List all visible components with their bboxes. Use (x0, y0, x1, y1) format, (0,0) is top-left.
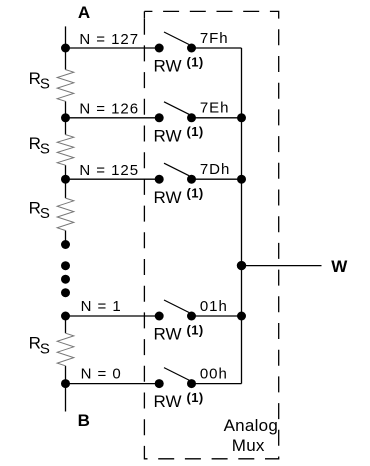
svg-text:RW: RW (154, 325, 182, 344)
analog mux boundary (dashed box) (144, 11, 278, 458)
svg-text:Mux: Mux (232, 436, 265, 455)
svg-text:Analog: Analog (224, 416, 278, 435)
wire: switch 7Eh to bus (192, 117, 242, 119)
node: tap N=0 junction (61, 379, 70, 388)
svg-text:RW: RW (154, 188, 182, 207)
wire: tap N=0 (66, 383, 160, 385)
resistor RS2 (57, 135, 74, 166)
svg-text:B: B (78, 411, 90, 430)
svg-text:7Fh: 7Fh (200, 30, 229, 47)
svg-text:N = 1: N = 1 (81, 298, 122, 315)
node: tap N=125 junction (61, 175, 70, 184)
svg-text:7Dh: 7Dh (200, 161, 230, 178)
svg-text:01h: 01h (200, 298, 228, 315)
svg-text:A: A (78, 3, 90, 22)
wire: terminal B stub (65, 384, 67, 412)
wire: ladder segment R1-R2 (65, 101, 67, 134)
svg-text:W: W (331, 257, 348, 276)
ellipsis dot 3 (61, 288, 70, 297)
wire: switch 00h to bus (192, 383, 242, 385)
ellipsis dot 2 (61, 275, 70, 284)
svg-text:RW: RW (154, 126, 182, 145)
svg-text:7Eh: 7Eh (200, 100, 230, 117)
svg-text:(1): (1) (187, 390, 204, 405)
wire: switch 7Dh to bus (192, 178, 242, 180)
wire: tap N=126 (66, 117, 160, 119)
wire: ladder segment R2-R3 (65, 165, 67, 198)
switch SW 00h (155, 368, 196, 389)
wire: switch 01h to bus (192, 315, 242, 317)
node: tap N=126 junction (61, 113, 70, 122)
node: bus junction 01h (237, 312, 246, 321)
wire: W output (242, 265, 322, 267)
svg-text:(1): (1) (187, 124, 204, 139)
wire: ladder segment below R4 (65, 366, 67, 384)
switch SW 01h (155, 300, 196, 321)
node: bus junction 7Dh (237, 175, 246, 184)
switch SW 7Fh (155, 32, 196, 53)
analog mux boundary corner tick (143, 11, 145, 18)
node: tap N=127 junction (61, 44, 70, 53)
svg-text:N = 127: N = 127 (79, 31, 139, 48)
switch SW 7Dh (155, 163, 196, 184)
wire: ladder segment N=1 to B terminal (65, 316, 67, 333)
resistor RS1 (57, 70, 74, 102)
svg-text:N = 125: N = 125 (79, 162, 139, 179)
switch SW 7Eh (155, 102, 196, 123)
wire: tap N=127 (66, 47, 160, 49)
node: ladder break dot (61, 240, 70, 249)
wire: switch 7Fh to bus (192, 47, 242, 49)
node: bus junction 7Eh (237, 113, 246, 122)
svg-text:(1): (1) (187, 186, 204, 201)
svg-text:(1): (1) (187, 54, 204, 69)
svg-text:RW: RW (154, 392, 182, 411)
ellipsis dot 1 (61, 261, 70, 270)
node: tap N=1 junction (61, 312, 70, 321)
node: bus junction W (237, 261, 246, 270)
wire: tap N=1 (66, 315, 160, 317)
svg-text:00h: 00h (200, 366, 228, 383)
wire: terminal A stub (65, 26, 67, 69)
wire: tap N=125 (66, 178, 160, 180)
resistor RS4 (57, 333, 74, 366)
svg-text:(1): (1) (187, 322, 204, 337)
resistor RS3 (57, 198, 74, 230)
svg-text:N = 0: N = 0 (81, 365, 122, 382)
wire: ladder segment below R3 (65, 231, 67, 245)
svg-text:RW: RW (154, 57, 182, 76)
svg-text:N = 126: N = 126 (79, 101, 139, 118)
wire: wiper bus vertical (241, 48, 243, 384)
